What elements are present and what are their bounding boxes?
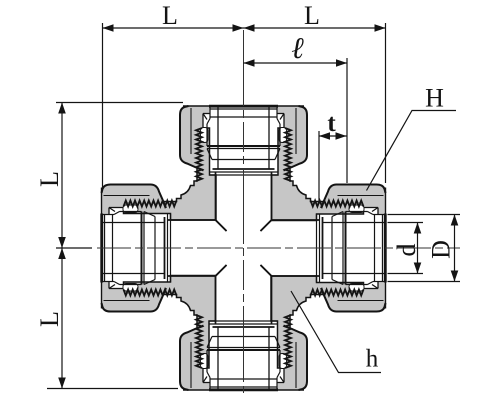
body quadrant TR (272, 128, 364, 221)
bottom arm / nut pockets (201, 354, 209, 369)
leader H (367, 111, 457, 191)
svg-text:L: L (162, 1, 178, 30)
bottom arm / nut lines (180, 326, 204, 391)
top arm / nut gray (278, 106, 308, 171)
svg-text:t: t (327, 110, 336, 137)
left arm / nut lines (102, 185, 167, 209)
vertical centerline (243, 30, 245, 393)
dim line d (417, 223, 419, 274)
bottom arm / nut gray (180, 326, 210, 391)
svg-text:d: d (392, 244, 421, 257)
body quadrant BL (124, 276, 216, 369)
extension tick center left (56, 247, 92, 249)
right arm / nut gray (321, 282, 386, 312)
svg-text:L: L (35, 171, 64, 187)
top arm / nut lines (284, 106, 308, 171)
dim line D (454, 215, 456, 282)
dim line L top-left (103, 27, 386, 29)
dim line L left-top (61, 103, 63, 389)
leader h (291, 291, 381, 373)
extension line bottom face left (47, 388, 178, 390)
body quadrant TL (124, 128, 217, 220)
svg-text:L: L (35, 311, 64, 327)
dim line t (319, 135, 347, 137)
svg-text:H: H (425, 84, 444, 113)
right arm / nut lines (321, 288, 386, 312)
dim line L left-bottom (58, 248, 66, 259)
dim line ell (244, 62, 348, 64)
body quadrant BR (271, 276, 364, 368)
left arm / nut gray (102, 185, 167, 215)
svg-text:D: D (427, 240, 456, 259)
top arm / nut pockets (279, 128, 287, 143)
extension line left face (102, 23, 104, 189)
svg-text:h: h (366, 346, 379, 373)
svg-text:L: L (304, 1, 320, 30)
horizontal centerline (97, 247, 460, 249)
left arm / nut pockets (123, 205, 138, 213)
svg-text:ℓ: ℓ (291, 32, 304, 65)
dim line L top-right (244, 24, 255, 32)
extension line top face left (56, 102, 183, 104)
right arm / nut pockets (349, 284, 364, 292)
extension line right face top (385, 23, 387, 183)
